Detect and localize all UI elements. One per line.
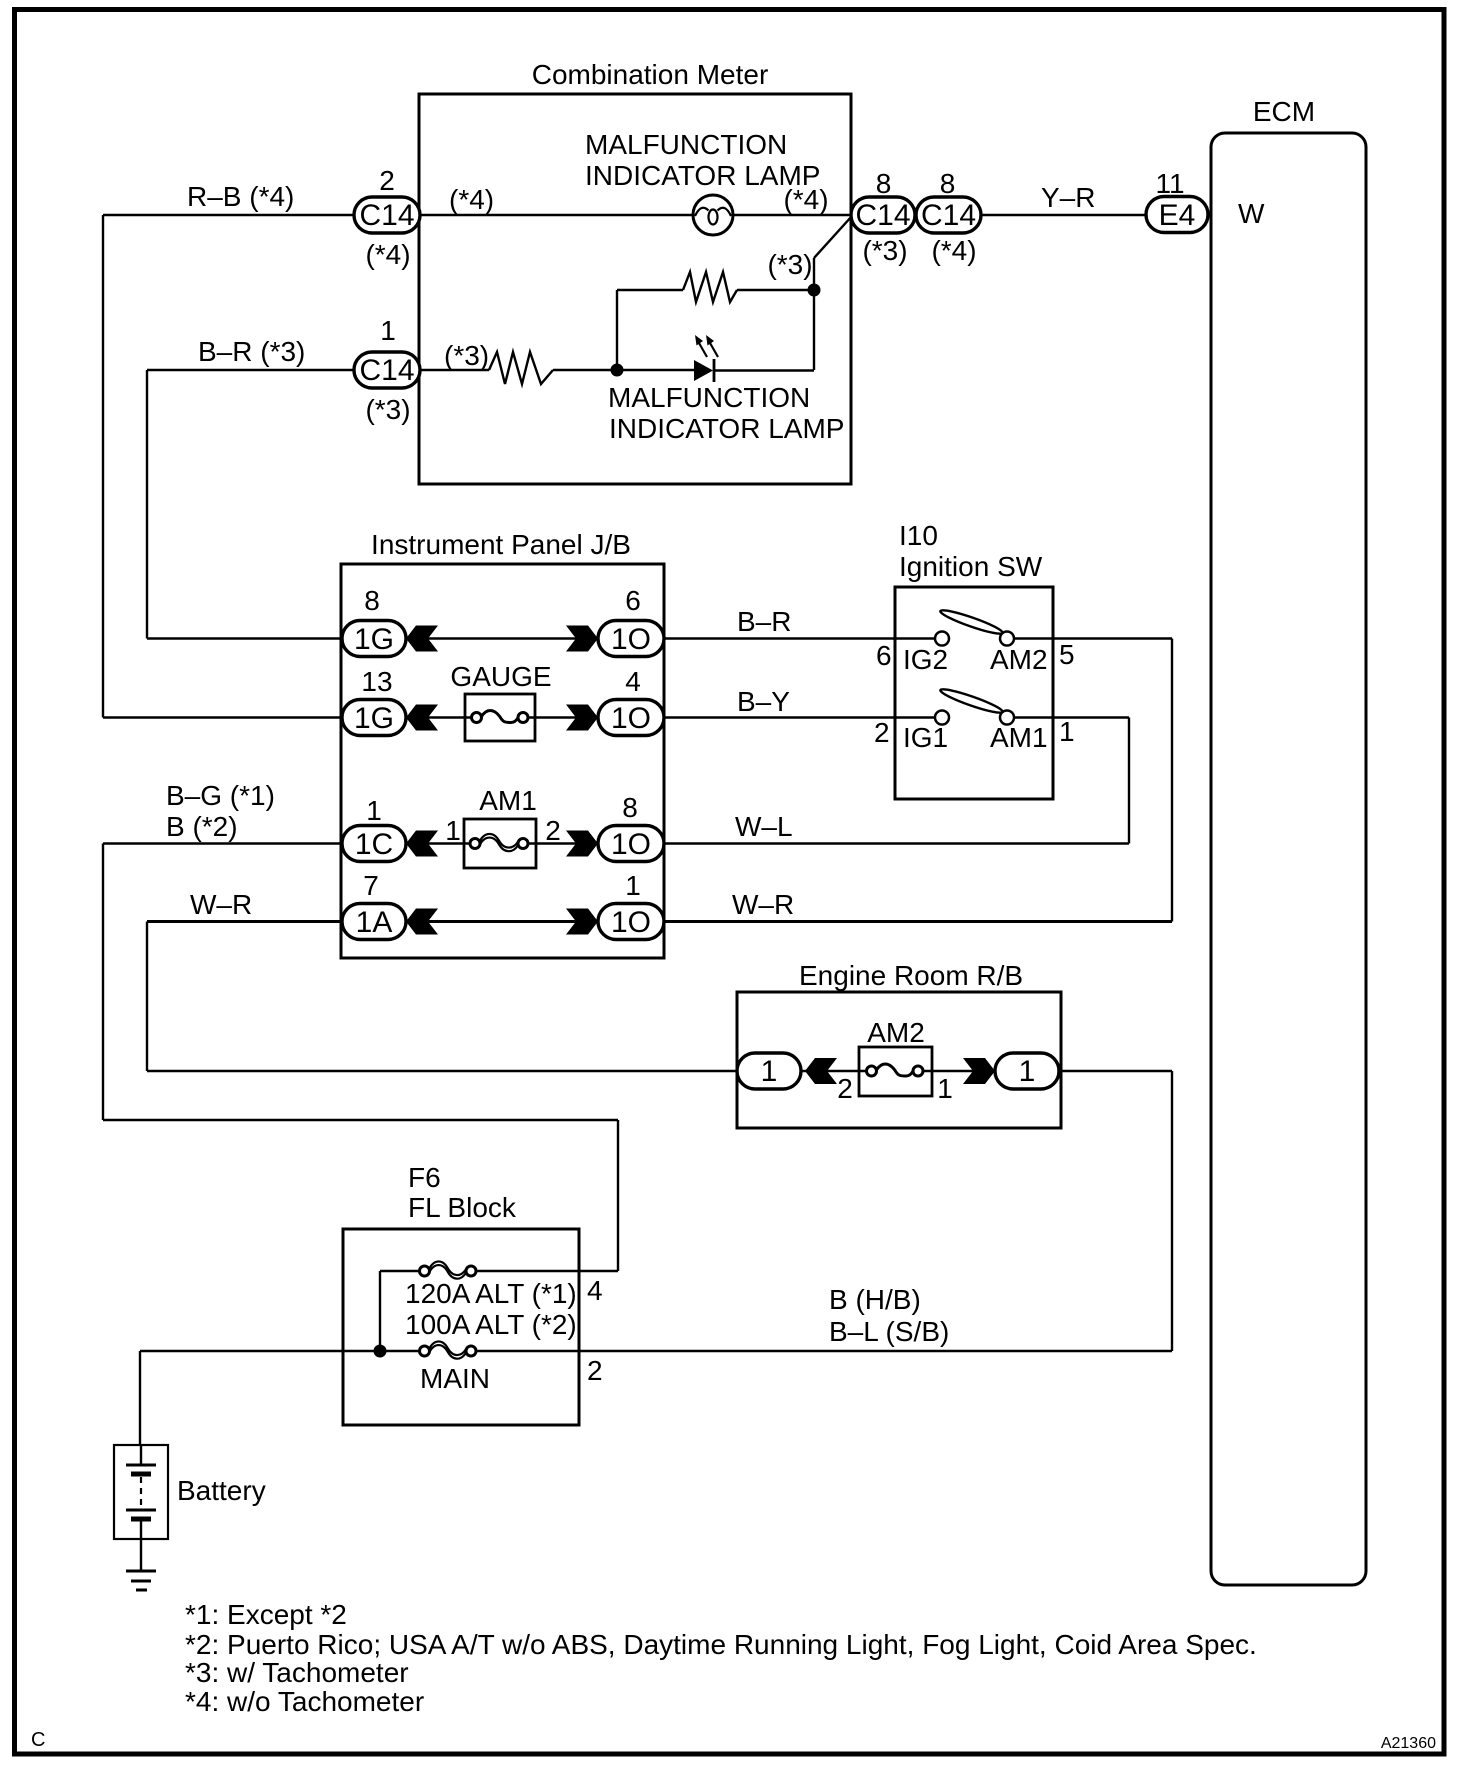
svg-text:ECM: ECM [1253,96,1315,127]
svg-text:A21360: A21360 [1381,1735,1436,1752]
svg-text:MALFUNCTION: MALFUNCTION [608,382,810,413]
svg-text:C14: C14 [921,199,976,232]
svg-text:B–R (*3): B–R (*3) [198,336,305,367]
svg-text:13: 13 [361,666,392,697]
svg-text:1A: 1A [356,906,393,939]
svg-text:1: 1 [937,1073,953,1104]
svg-text:INDICATOR LAMP: INDICATOR LAMP [609,413,844,444]
svg-text:R–B (*4): R–B (*4) [187,181,294,212]
svg-text:C14: C14 [359,354,414,387]
svg-text:Engine Room R/B: Engine Room R/B [799,960,1023,991]
svg-text:1O: 1O [611,906,651,939]
svg-text:FL Block: FL Block [408,1192,517,1223]
svg-text:B–L (S/B): B–L (S/B) [829,1316,949,1347]
svg-text:1O: 1O [611,828,651,861]
svg-text:IG1: IG1 [903,722,948,753]
svg-text:(*4): (*4) [931,235,976,266]
svg-text:1: 1 [761,1055,778,1088]
svg-text:120A ALT (*1): 120A ALT (*1) [405,1278,577,1309]
svg-text:Y–R: Y–R [1041,182,1095,213]
svg-text:1O: 1O [611,623,651,656]
svg-text:2: 2 [587,1355,603,1386]
svg-text:W: W [1238,198,1265,229]
svg-text:2: 2 [874,717,890,748]
svg-text:B (*2): B (*2) [166,811,238,842]
svg-text:(*3): (*3) [444,340,489,371]
svg-text:4: 4 [625,666,641,697]
svg-text:Ignition SW: Ignition SW [899,551,1043,582]
svg-text:F6: F6 [408,1162,441,1193]
svg-text:Combination Meter: Combination Meter [532,59,769,90]
svg-text:AM2: AM2 [867,1017,925,1048]
svg-text:W–R: W–R [732,889,794,920]
svg-text:5: 5 [1059,639,1075,670]
svg-text:*1: Except *2: *1: Except *2 [185,1599,347,1630]
svg-text:(*4): (*4) [449,184,494,215]
svg-text:Battery: Battery [177,1475,266,1506]
svg-text:Instrument Panel J/B: Instrument Panel J/B [371,529,631,560]
svg-text:*3: w/ Tachometer: *3: w/ Tachometer [185,1657,409,1688]
svg-text:1G: 1G [354,623,394,656]
svg-text:I10: I10 [899,520,938,551]
svg-text:4: 4 [587,1275,603,1306]
svg-text:MALFUNCTION: MALFUNCTION [585,129,787,160]
svg-text:(*3): (*3) [767,249,812,280]
svg-text:AM1: AM1 [479,785,537,816]
svg-text:B–R: B–R [737,606,791,637]
svg-text:100A ALT (*2): 100A ALT (*2) [405,1309,577,1340]
svg-text:B–Y: B–Y [737,686,790,717]
svg-text:AM2: AM2 [990,644,1048,675]
svg-text:6: 6 [625,585,641,616]
svg-text:C14: C14 [359,199,414,232]
svg-text:E4: E4 [1159,199,1196,232]
svg-text:W–L: W–L [735,811,793,842]
svg-text:1O: 1O [611,702,651,735]
svg-text:6: 6 [876,640,892,671]
svg-text:IG2: IG2 [903,644,948,675]
svg-text:8: 8 [940,168,956,199]
svg-text:1: 1 [1059,716,1075,747]
svg-text:(*4): (*4) [783,184,828,215]
svg-text:*4: w/o Tachometer: *4: w/o Tachometer [185,1686,424,1717]
svg-text:C: C [31,1729,45,1751]
svg-text:B–G (*1): B–G (*1) [166,780,275,811]
svg-text:2: 2 [379,165,395,196]
svg-text:*2: Puerto Rico; USA A/T w/o A: *2: Puerto Rico; USA A/T w/o ABS, Daytim… [185,1629,1257,1660]
svg-text:8: 8 [876,168,892,199]
svg-text:8: 8 [622,792,638,823]
svg-text:(*4): (*4) [365,239,410,270]
svg-text:1: 1 [625,870,641,901]
svg-text:1: 1 [380,315,396,346]
svg-text:2: 2 [545,815,561,846]
svg-text:MAIN: MAIN [420,1363,490,1394]
svg-text:11: 11 [1155,168,1184,199]
svg-text:B (H/B): B (H/B) [829,1284,921,1315]
svg-text:GAUGE: GAUGE [450,661,551,692]
svg-text:1G: 1G [354,702,394,735]
svg-text:C14: C14 [855,199,910,232]
svg-text:(*3): (*3) [862,235,907,266]
svg-text:8: 8 [364,585,380,616]
svg-text:1C: 1C [355,828,393,861]
svg-text:(*3): (*3) [365,394,410,425]
svg-text:1: 1 [1019,1055,1036,1088]
svg-text:1: 1 [445,815,461,846]
svg-text:7: 7 [363,870,379,901]
svg-text:1: 1 [366,795,382,826]
svg-text:AM1: AM1 [990,722,1048,753]
svg-text:2: 2 [837,1073,853,1104]
svg-text:W–R: W–R [190,889,252,920]
